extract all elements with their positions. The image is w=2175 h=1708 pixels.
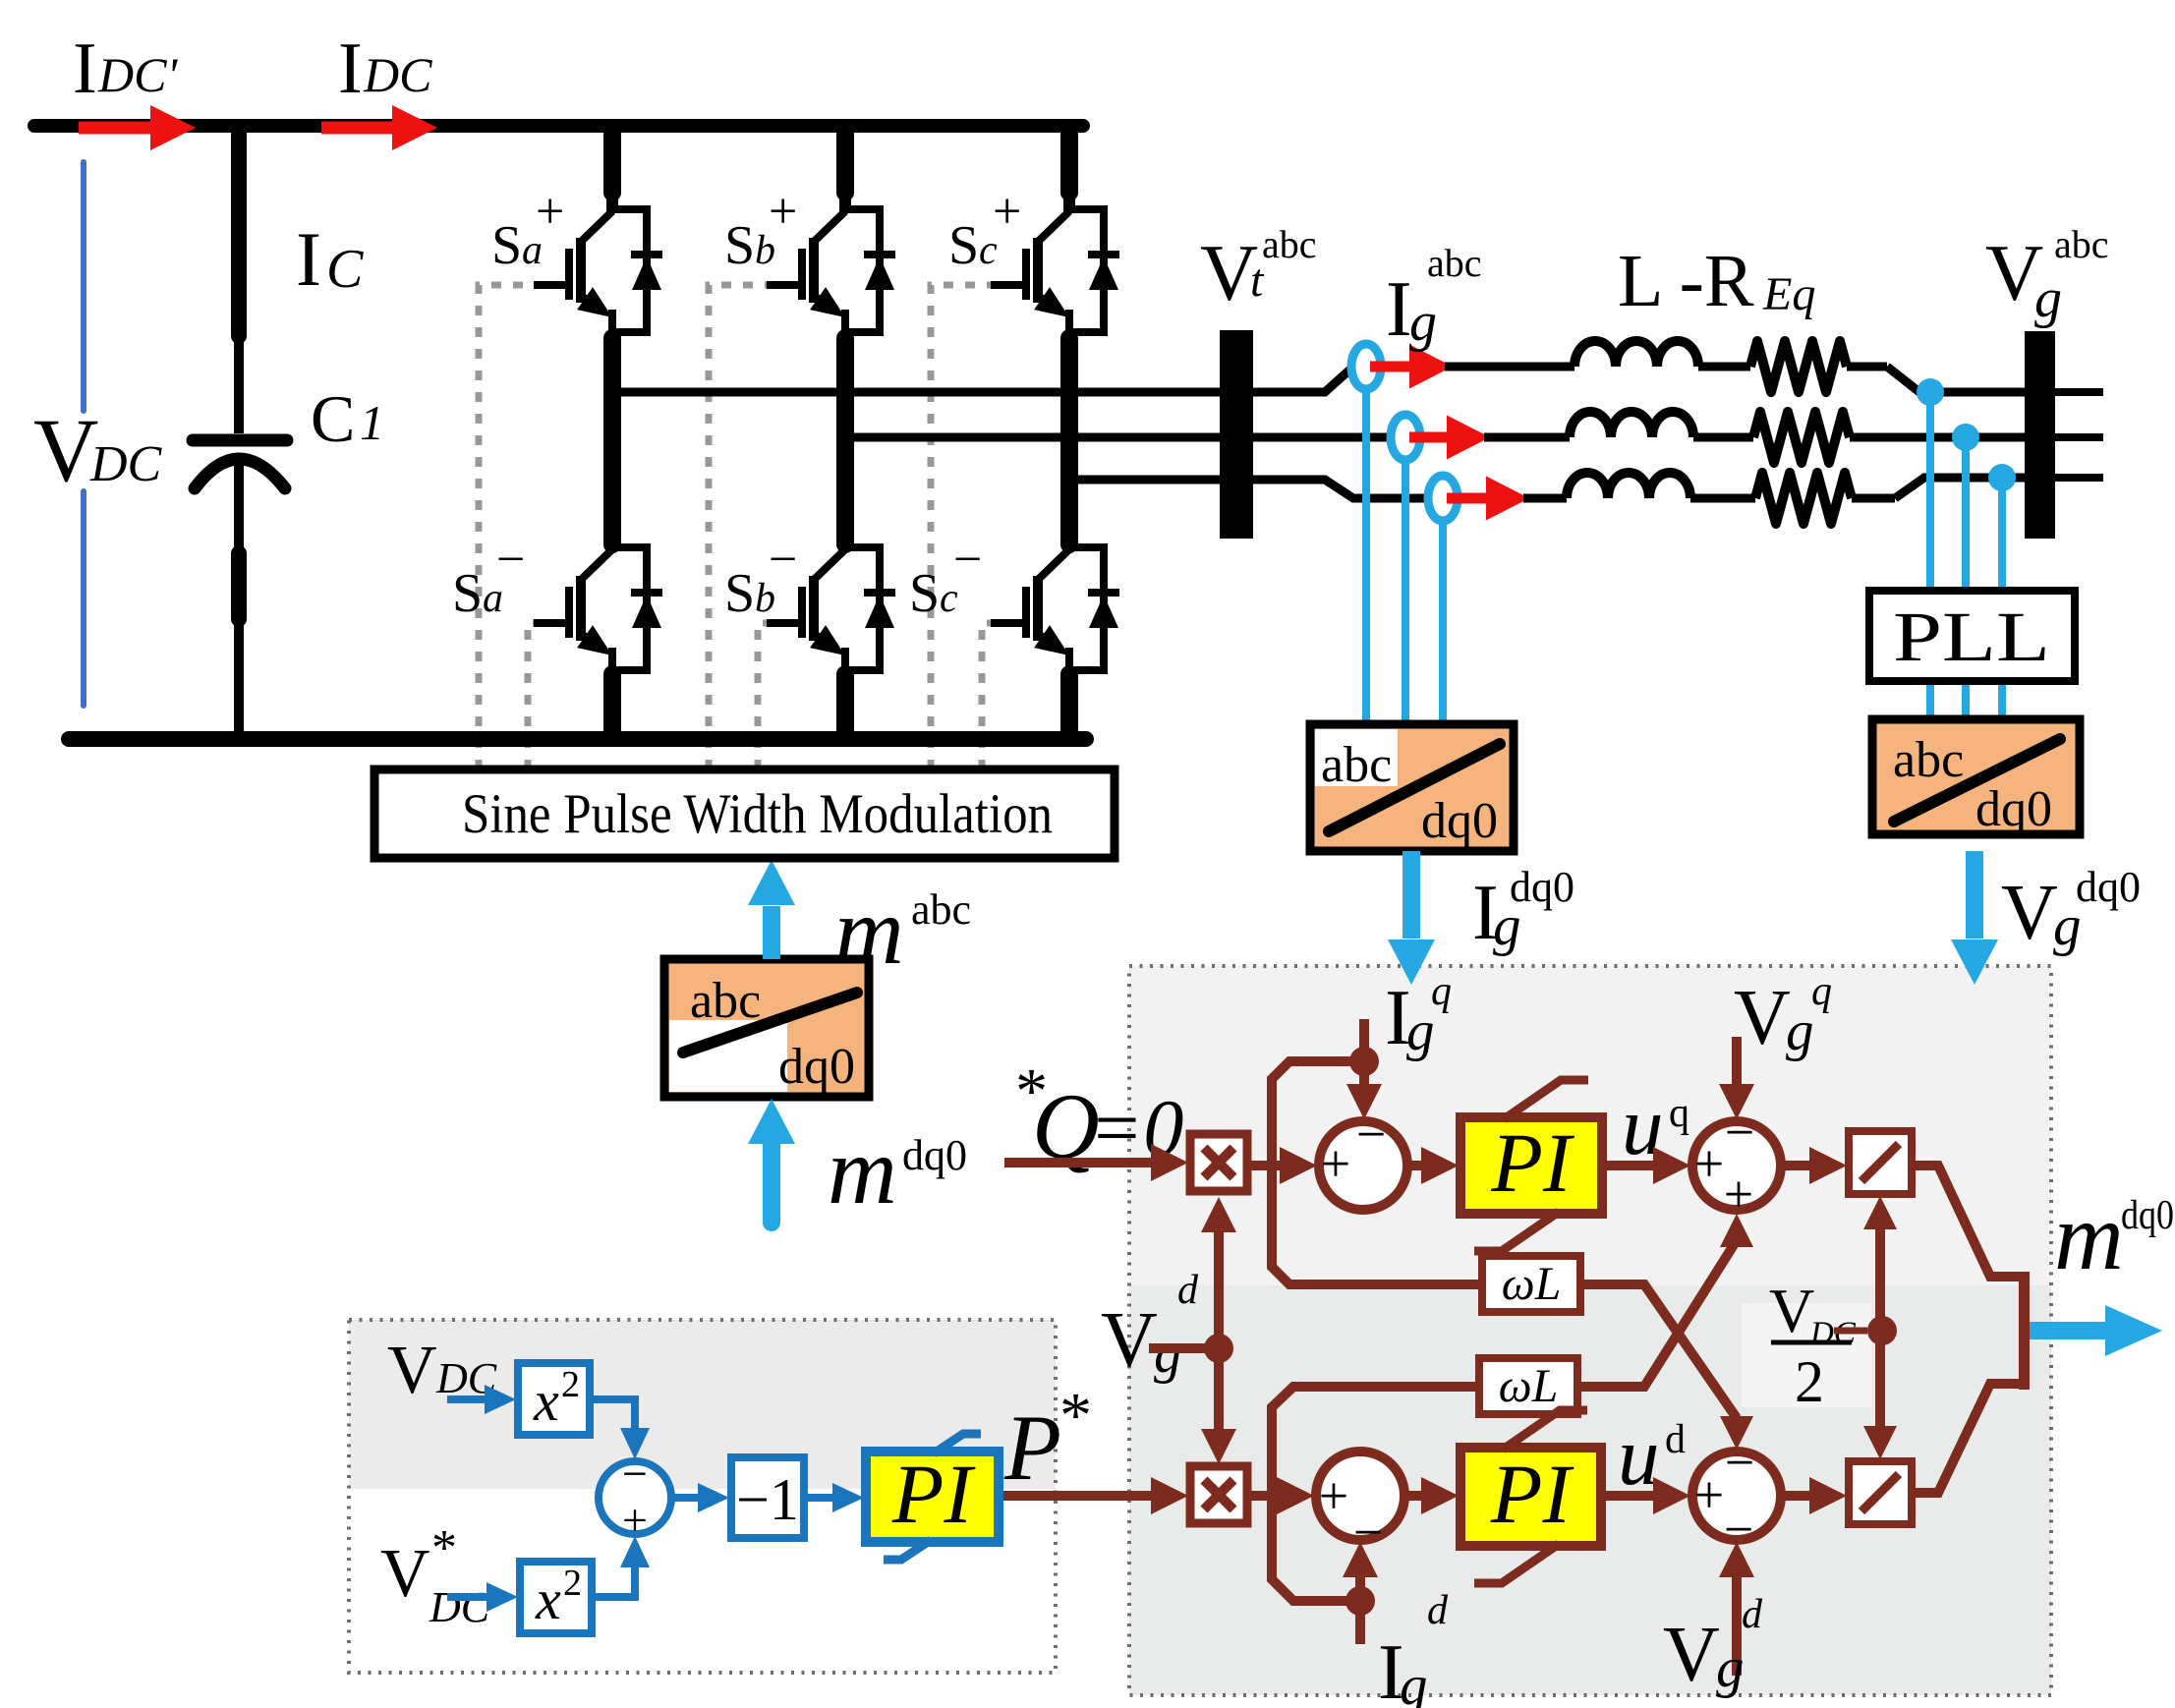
svg-text:−: − xyxy=(1725,1433,1754,1492)
svg-text:g: g xyxy=(1716,1637,1745,1699)
svg-text:V: V xyxy=(387,1333,437,1408)
svg-text:dq0: dq0 xyxy=(1421,793,1498,849)
svg-text:V: V xyxy=(1734,975,1791,1061)
svg-text:PI: PI xyxy=(891,1447,976,1541)
svg-text:S: S xyxy=(909,563,940,624)
svg-text:DC': DC' xyxy=(97,47,178,102)
svg-text:−: − xyxy=(496,532,525,588)
svg-text:q: q xyxy=(1811,969,1832,1014)
svg-text:PI: PI xyxy=(1490,1447,1574,1541)
svg-text:Sine Pulse Width Modulation: Sine Pulse Width Modulation xyxy=(462,783,1053,845)
svg-text:C: C xyxy=(326,239,364,300)
svg-text:2: 2 xyxy=(1795,1349,1824,1414)
svg-text:I: I xyxy=(296,216,321,302)
svg-text:dq0: dq0 xyxy=(2121,1193,2174,1238)
svg-text:x: x xyxy=(535,1567,561,1631)
svg-text:g: g xyxy=(1154,1323,1182,1385)
svg-text:m: m xyxy=(828,1118,897,1224)
svg-text:dq0: dq0 xyxy=(778,1039,855,1095)
svg-text:−: − xyxy=(953,532,982,588)
svg-text:V: V xyxy=(1769,1276,1814,1345)
svg-text:abc: abc xyxy=(1893,732,1964,788)
svg-text:g: g xyxy=(1786,1000,1814,1062)
svg-text:I: I xyxy=(338,28,363,109)
svg-text:d: d xyxy=(1427,1588,1449,1633)
svg-text:+: + xyxy=(1724,1165,1753,1224)
svg-text:−: − xyxy=(769,532,797,588)
svg-text:DC: DC xyxy=(363,47,432,102)
svg-text:S: S xyxy=(724,215,755,276)
svg-text:−: − xyxy=(1356,1105,1386,1164)
svg-text:V: V xyxy=(2001,870,2058,956)
svg-text:g: g xyxy=(1400,1655,1428,1708)
svg-text:abc: abc xyxy=(911,885,971,934)
svg-text:1: 1 xyxy=(360,395,384,450)
svg-text:d: d xyxy=(1177,1268,1199,1313)
svg-text:x: x xyxy=(533,1369,559,1433)
svg-text:I: I xyxy=(1386,266,1412,353)
svg-text:g: g xyxy=(1409,292,1437,353)
svg-text:S: S xyxy=(452,563,483,624)
svg-text:dq0: dq0 xyxy=(902,1131,967,1179)
svg-text:+: + xyxy=(993,184,1021,240)
svg-text:abc: abc xyxy=(1262,222,1317,266)
svg-text:abc: abc xyxy=(1321,737,1392,793)
svg-text:abc: abc xyxy=(1427,241,1482,285)
svg-text:V: V xyxy=(1663,1612,1720,1698)
svg-text:I: I xyxy=(73,28,97,109)
svg-text:S: S xyxy=(491,215,522,276)
svg-text:+: + xyxy=(536,184,564,240)
svg-text:V: V xyxy=(33,400,98,500)
svg-text:2: 2 xyxy=(561,1364,580,1405)
svg-text:DC: DC xyxy=(429,1583,490,1631)
svg-text:q: q xyxy=(1431,969,1452,1014)
svg-text:2: 2 xyxy=(563,1563,582,1604)
svg-text:+: + xyxy=(1321,1134,1350,1193)
svg-text:ωL: ωL xyxy=(1502,1258,1562,1310)
svg-text:L -R: L -R xyxy=(1618,240,1754,322)
svg-text:m: m xyxy=(2054,1184,2124,1290)
svg-text:d: d xyxy=(1665,1417,1686,1462)
svg-text:+: + xyxy=(1694,1465,1724,1524)
svg-text:V: V xyxy=(380,1536,430,1612)
svg-text:Eq: Eq xyxy=(1762,268,1815,320)
svg-text:P: P xyxy=(1003,1395,1061,1500)
svg-text:*: * xyxy=(431,1520,457,1576)
svg-text:−: − xyxy=(622,1449,648,1499)
svg-text:g: g xyxy=(2034,268,2062,329)
svg-text:m: m xyxy=(834,879,904,985)
svg-text:DC: DC xyxy=(89,436,163,492)
svg-text:dq0: dq0 xyxy=(1975,781,2052,837)
svg-text:d: d xyxy=(1742,1592,1763,1637)
svg-text:abc: abc xyxy=(690,973,761,1029)
svg-text:PLL: PLL xyxy=(1893,598,2050,676)
svg-text:+: + xyxy=(769,184,797,240)
svg-text:dq0: dq0 xyxy=(1510,863,1574,911)
svg-text:abc: abc xyxy=(2054,222,2109,266)
svg-text:dq0: dq0 xyxy=(2076,863,2141,911)
svg-text:−1: −1 xyxy=(736,1467,799,1532)
svg-text:S: S xyxy=(724,563,755,624)
svg-text:C: C xyxy=(311,381,355,456)
svg-text:PI: PI xyxy=(1490,1115,1574,1210)
svg-text:ωL: ωL xyxy=(1499,1360,1559,1412)
svg-text:+: + xyxy=(1694,1134,1724,1193)
svg-text:q: q xyxy=(1669,1091,1689,1136)
svg-text:V: V xyxy=(1101,1297,1158,1384)
svg-text:S: S xyxy=(948,215,979,276)
svg-text:*: * xyxy=(1059,1380,1092,1452)
svg-text:+: + xyxy=(1319,1466,1348,1525)
